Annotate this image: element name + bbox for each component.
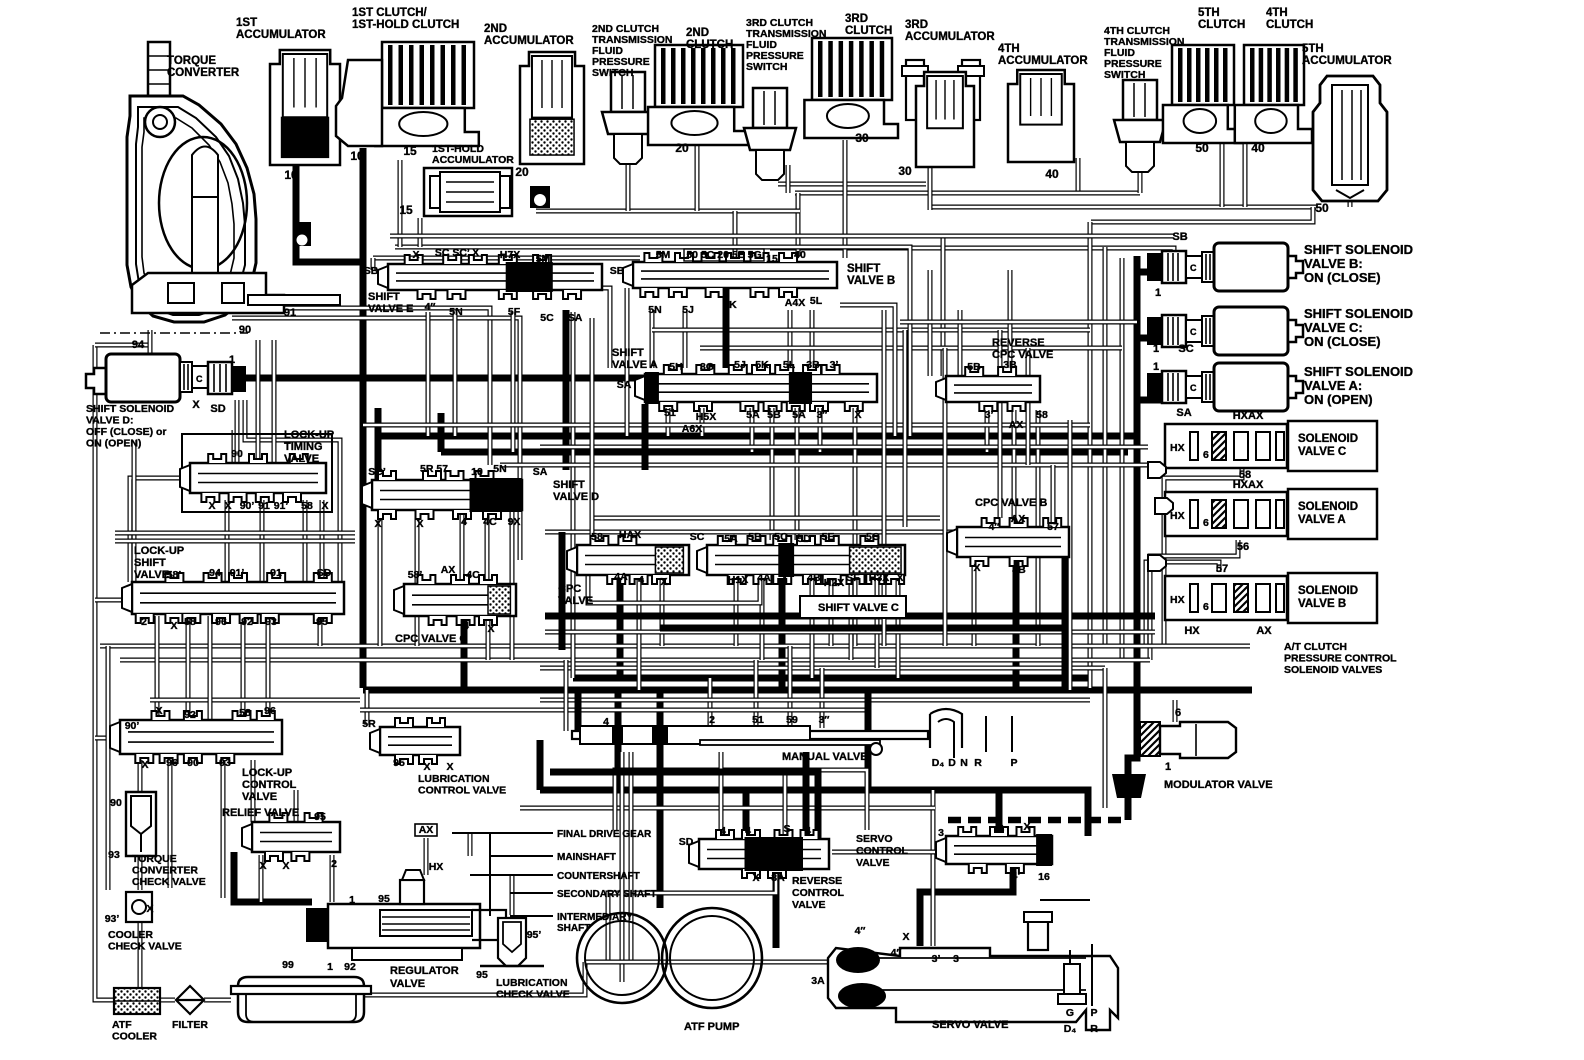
wire cpcC-X xyxy=(486,620,491,660)
wire bus y646 xyxy=(100,644,1250,649)
svg-text:SC: SC xyxy=(1178,343,1193,355)
wire 4th clutch 40 xyxy=(1243,135,1248,207)
port box svb xyxy=(684,249,764,261)
wire cpcB-X xyxy=(972,560,977,646)
svg-text:50: 50 xyxy=(1195,141,1209,155)
accumulator 1st xyxy=(270,50,340,165)
wire thick bus B xyxy=(363,687,1252,694)
label svd ports xyxy=(368,463,547,530)
wire shiftE top feed xyxy=(373,256,640,261)
label port 20a xyxy=(515,165,529,179)
svg-text:4: 4 xyxy=(463,620,469,632)
svg-text:4: 4 xyxy=(805,825,811,837)
wire 2nd shiftB drop xyxy=(733,211,738,258)
wire ltv-2 xyxy=(260,500,265,582)
wire bus y808 xyxy=(520,806,935,811)
strainer xyxy=(231,977,371,1022)
wire bus y447 xyxy=(540,445,1148,450)
wire bus y236 xyxy=(390,234,1174,239)
svg-text:P: P xyxy=(1090,1007,1097,1019)
label 93 xyxy=(108,849,120,861)
wire vert 1010 xyxy=(1008,270,1013,368)
wire right riser 1090 xyxy=(1088,222,1093,688)
svg-text:1: 1 xyxy=(349,894,355,906)
svg-text:5N: 5N xyxy=(648,304,661,316)
label svc ports xyxy=(690,531,904,589)
svg-text:92: 92 xyxy=(241,616,253,628)
wire mv-51 xyxy=(754,660,759,728)
svg-text:MODULATOR VALVE: MODULATOR VALVE xyxy=(1164,779,1273,791)
label reg ports xyxy=(327,893,390,973)
label ssd ports xyxy=(132,307,296,415)
svg-text:C: C xyxy=(1190,327,1197,337)
svg-text:4: 4 xyxy=(998,823,1004,835)
label port 30a xyxy=(855,131,869,145)
solenoid valve B xyxy=(1165,576,1287,620)
wire 1st-accumulator feed 10 xyxy=(296,160,366,262)
svg-text:2: 2 xyxy=(331,858,337,870)
svg-text:6: 6 xyxy=(1203,449,1209,461)
wire rcpc-58 xyxy=(1036,410,1041,646)
svg-text:4A: 4A xyxy=(757,572,771,584)
clutch 4th xyxy=(1235,45,1312,143)
svg-text:A6X: A6X xyxy=(682,423,702,435)
wire 40 port feed xyxy=(796,193,801,256)
wire lcv-93 xyxy=(221,760,226,898)
wire cpcB drop 4B xyxy=(1013,560,1020,690)
lubrication check valve xyxy=(480,918,544,966)
svg-text:X: X xyxy=(752,872,759,884)
label mod ports xyxy=(1165,707,1181,773)
svg-text:90: 90 xyxy=(110,797,122,809)
svg-text:X: X xyxy=(192,399,200,411)
svg-text:50 5C 20 5E 5G: 50 5C 20 5E 5G xyxy=(686,249,761,261)
svg-text:H3X: H3X xyxy=(869,572,889,584)
wire 3rd clutch 30 drop xyxy=(843,140,848,258)
svg-text:H5X: H5X xyxy=(696,411,716,423)
wire bus y632 xyxy=(545,630,1155,635)
label rcv ports xyxy=(679,823,811,884)
wire solenoid SB stub xyxy=(1137,269,1162,276)
check ball 2nd xyxy=(530,186,550,208)
svg-text:R: R xyxy=(1090,1023,1098,1035)
svg-text:59: 59 xyxy=(786,714,798,726)
lock-up timing valve xyxy=(180,454,326,502)
svg-text:93’: 93’ xyxy=(105,913,120,925)
wire reverse control feed xyxy=(743,790,750,840)
label lub95 xyxy=(476,929,541,981)
svg-text:SC SC’ X: SC SC’ X xyxy=(435,247,479,259)
svg-text:3A: 3A xyxy=(771,872,785,884)
svg-text:X: X xyxy=(170,620,177,632)
wire svC-H1X xyxy=(734,575,739,646)
svg-text:57: 57 xyxy=(1047,521,1059,533)
wire thick bus lower riser xyxy=(438,413,445,452)
cooler check valve xyxy=(126,892,152,922)
svg-text:5A: 5A xyxy=(724,533,738,545)
svg-text:1: 1 xyxy=(1165,761,1171,773)
wire lcv drop2 xyxy=(251,760,256,822)
wire relief-X1 xyxy=(259,855,264,902)
svg-text:CPC VALVE C: CPC VALVE C xyxy=(395,633,467,645)
wire solenoid SC stub xyxy=(1137,335,1162,342)
wire solenoid D output SD xyxy=(232,375,644,382)
wire left border xyxy=(95,345,114,1000)
svg-text:3’: 3’ xyxy=(985,409,994,421)
wire thick bus A xyxy=(573,675,1090,682)
wire 5th accumulator 50 xyxy=(1348,198,1353,207)
label 93p X xyxy=(105,903,154,925)
wire 5E-4 xyxy=(426,312,431,436)
svg-text:91: 91 xyxy=(258,500,270,512)
svg-text:SB: SB xyxy=(1172,231,1187,243)
shift valve A xyxy=(635,365,877,411)
wire vert 556 xyxy=(564,660,569,731)
svg-text:58: 58 xyxy=(591,531,603,543)
wire 5E-5F xyxy=(511,312,516,452)
wire bus y532 xyxy=(545,532,1065,545)
svg-text:50: 50 xyxy=(1315,201,1329,215)
lock-up control valve xyxy=(110,711,282,763)
svg-text:3″: 3″ xyxy=(819,714,830,726)
wire bus y184 xyxy=(778,182,926,187)
modulator check ball xyxy=(1112,774,1146,798)
wire svD-4C xyxy=(485,512,490,584)
wire cpcC drop xyxy=(461,620,468,690)
wire lsv-95 xyxy=(318,616,323,646)
label HXAX A xyxy=(1233,479,1264,553)
svg-text:3A: 3A xyxy=(811,975,825,987)
wire 5B-5J xyxy=(683,310,688,368)
wire ltv feed c xyxy=(272,340,277,463)
svg-text:58: 58 xyxy=(184,616,196,628)
svg-text:1: 1 xyxy=(1153,343,1159,355)
wire loop rcv top xyxy=(615,770,867,830)
svg-text:94: 94 xyxy=(209,567,221,579)
wire rcv port 4c xyxy=(803,752,810,839)
svg-text:58: 58 xyxy=(1036,409,1048,421)
wire svB right elbow1 xyxy=(843,247,910,436)
clutch 2nd xyxy=(648,45,748,145)
shift valve E xyxy=(378,255,602,299)
svg-text:RELIEF VALVE: RELIEF VALVE xyxy=(222,807,299,819)
wire svC drop 4 xyxy=(779,575,786,690)
svg-text:4: 4 xyxy=(461,516,467,528)
connector plug 56 xyxy=(1155,498,1173,514)
wire 5B-5L xyxy=(810,310,815,368)
wire tc out 91 xyxy=(232,308,490,465)
wire vert 960 xyxy=(958,310,963,376)
servo control valve xyxy=(936,827,1052,873)
wire thick U1 xyxy=(545,613,1155,620)
wire lsv-96 xyxy=(186,616,191,718)
label AX HX reg xyxy=(419,824,444,873)
wire svC-H2X xyxy=(829,575,834,646)
wire lcv-90 left xyxy=(95,736,118,741)
svg-text:90: 90 xyxy=(239,324,251,336)
svg-text:58’: 58’ xyxy=(408,569,423,581)
svg-text:5K: 5K xyxy=(723,299,737,311)
pressure switch 4th clutch xyxy=(1114,80,1166,172)
svg-text:95: 95 xyxy=(378,893,390,905)
wire cpcA-X xyxy=(660,575,665,646)
wire 1st-hold acc drop xyxy=(418,218,423,247)
wire mv-3pp xyxy=(820,668,825,728)
wire ltv-4 xyxy=(320,500,325,582)
wire vert 1000 xyxy=(998,330,1003,518)
label HXAX C xyxy=(1233,410,1264,481)
regulator valve xyxy=(306,870,506,960)
wire bus y207 xyxy=(930,205,1316,210)
wire 5B-5N xyxy=(650,310,655,368)
wire lsv frame left xyxy=(132,440,137,582)
svg-text:SA: SA xyxy=(1176,407,1191,419)
wire modulator 6 xyxy=(1173,700,1178,722)
svg-text:5E: 5E xyxy=(822,531,835,543)
label cpca ports xyxy=(591,529,667,588)
wire lub check up xyxy=(510,875,515,915)
svg-text:SECONDARY SHAFT: SECONDARY SHAFT xyxy=(557,889,656,900)
svg-text:3″: 3″ xyxy=(817,409,828,421)
label 99 xyxy=(282,959,294,971)
clutch 3rd xyxy=(804,38,898,138)
svg-text:5B: 5B xyxy=(967,361,981,373)
ax box xyxy=(415,824,437,836)
svg-text:AX: AX xyxy=(419,824,434,836)
label HX AX B xyxy=(1184,563,1272,637)
svg-text:A4X: A4X xyxy=(785,297,805,309)
svg-text:ATF PUMP: ATF PUMP xyxy=(684,1021,739,1033)
wire strainer-pump xyxy=(365,962,585,995)
wire vert 600 xyxy=(620,752,625,982)
svg-text:5B: 5B xyxy=(748,531,762,543)
svg-text:92: 92 xyxy=(184,709,196,721)
svg-text:57: 57 xyxy=(1216,563,1228,575)
svg-text:SERVO VALVE: SERVO VALVE xyxy=(932,1019,1008,1031)
svg-text:COUNTERSHAFT: COUNTERSHAFT xyxy=(557,871,640,882)
wire vert 930b xyxy=(928,270,933,376)
svg-text:5N: 5N xyxy=(449,306,462,318)
label lsv ports xyxy=(141,567,332,632)
wire link y322 xyxy=(900,320,1137,325)
wire bus y518 xyxy=(590,516,940,521)
torque converter check valve xyxy=(126,792,156,856)
svg-text:3’: 3’ xyxy=(932,953,941,965)
svg-text:4C: 4C xyxy=(483,516,497,528)
label relief ports xyxy=(259,811,337,872)
svg-text:15: 15 xyxy=(399,203,413,217)
svg-text:1: 1 xyxy=(229,354,235,366)
wire ltv feed a xyxy=(235,400,240,463)
wire line4 to servo control xyxy=(540,790,1088,836)
wire modulator dashed line xyxy=(948,817,1128,824)
CPC valve B xyxy=(947,518,1069,566)
svg-text:MANUAL VALVE: MANUAL VALVE xyxy=(782,751,868,763)
accumulator 2nd xyxy=(520,52,584,164)
wire ltv-1 xyxy=(225,500,230,582)
clutch 1st/1st-hold xyxy=(375,42,478,146)
svg-text:5L: 5L xyxy=(810,295,823,307)
svg-text:99: 99 xyxy=(282,959,294,971)
svg-text:10: 10 xyxy=(471,466,483,478)
wire svD-4 xyxy=(460,512,465,584)
wire atfcooler-filter xyxy=(160,998,175,1003)
svg-text:5B: 5B xyxy=(767,409,781,421)
svg-text:4: 4 xyxy=(745,825,751,837)
wire mv-59 xyxy=(788,646,793,728)
manual valve xyxy=(572,709,1012,758)
svg-text:X: X xyxy=(146,903,153,915)
accumulator 5th xyxy=(1313,76,1387,201)
wire ltv-90 xyxy=(232,430,237,463)
svg-text:C: C xyxy=(1190,263,1197,273)
wire left border top xyxy=(95,343,150,348)
filter xyxy=(176,986,204,1014)
wire 5th clutch 50 xyxy=(1220,135,1225,207)
svg-text:SA: SA xyxy=(568,312,583,324)
svg-text:4″: 4″ xyxy=(425,301,436,313)
svg-text:SHIFT VALVE C: SHIFT VALVE C xyxy=(818,602,899,614)
svg-text:5F: 5F xyxy=(508,306,521,318)
svg-text:96: 96 xyxy=(264,705,276,717)
svg-text:9X: 9X xyxy=(508,516,521,528)
svg-text:G: G xyxy=(1066,1007,1074,1019)
wire svC-SF xyxy=(849,575,854,660)
svg-text:95: 95 xyxy=(393,757,405,769)
svg-text:4B: 4B xyxy=(807,572,821,584)
wire svD-X1 xyxy=(378,512,383,646)
svg-text:4: 4 xyxy=(638,574,644,586)
svg-text:3B: 3B xyxy=(806,359,820,371)
accumulator 1st-hold xyxy=(424,168,512,216)
svg-text:AX: AX xyxy=(1011,513,1026,525)
wire lsv top rail2 xyxy=(115,539,355,544)
wire 4th accumulator 40 xyxy=(1076,158,1081,193)
svg-text:S: S xyxy=(783,823,790,835)
svg-text:SF: SF xyxy=(846,572,860,584)
wire 3rd accumulator drop xyxy=(928,155,933,210)
wire right riser 1122 xyxy=(1120,258,1125,660)
shift valve D xyxy=(362,471,522,519)
svg-text:FILTER: FILTER xyxy=(172,1019,208,1031)
svg-text:10: 10 xyxy=(284,168,298,182)
svg-text:1: 1 xyxy=(1155,287,1161,299)
wire rcpc-3p xyxy=(985,410,990,452)
wire ccv-atf xyxy=(138,922,143,988)
servo valve xyxy=(828,900,1118,1030)
solenoid valve B label box xyxy=(1288,573,1377,623)
label port 40b xyxy=(1251,141,1265,155)
svg-text:HX: HX xyxy=(1170,594,1185,606)
svg-text:3G: 3G xyxy=(700,361,714,373)
wire lsv-58 xyxy=(241,616,246,716)
label rcpc ports xyxy=(967,359,1048,431)
lock-up shift valve xyxy=(122,573,344,623)
svg-text:H2X: H2X xyxy=(824,577,844,589)
wire 2nd bus y211 xyxy=(536,209,800,214)
wire rcpc-AX xyxy=(1012,410,1017,527)
svg-text:AX: AX xyxy=(441,564,456,576)
wire 5E-SA xyxy=(571,312,576,678)
wire bus y222 xyxy=(1091,207,1313,222)
svg-text:X: X xyxy=(660,576,667,588)
svg-text:3: 3 xyxy=(938,827,944,839)
wire 2nd clutch drop xyxy=(695,140,700,211)
label ltv ports xyxy=(208,448,328,512)
svg-text:4: 4 xyxy=(781,574,787,586)
ATF pump xyxy=(577,908,762,1008)
svg-text:10: 10 xyxy=(350,149,364,163)
svg-text:90’: 90’ xyxy=(240,500,255,512)
wire suction join xyxy=(585,960,640,965)
svg-text:LUBRICATIONCHECK VALVE: LUBRICATIONCHECK VALVE xyxy=(496,977,570,1001)
svg-text:5K: 5K xyxy=(755,359,769,371)
svg-text:95: 95 xyxy=(476,969,488,981)
wire svD 9X thick xyxy=(559,532,566,650)
pressure switch 3rd clutch xyxy=(744,88,796,180)
label cpcb ports xyxy=(973,513,1059,576)
svg-text:5R 57: 5R 57 xyxy=(420,463,448,475)
svg-text:40: 40 xyxy=(1045,167,1059,181)
svg-text:5C: 5C xyxy=(540,312,554,324)
wire rcv port S xyxy=(783,770,788,839)
svg-text:X: X xyxy=(321,500,328,512)
wire reverse ctl to servo valve xyxy=(773,870,780,948)
clutch 5th xyxy=(1163,45,1242,143)
label sve ports xyxy=(364,247,583,324)
svg-text:C: C xyxy=(196,374,203,384)
solenoid valve C label box xyxy=(1288,421,1377,471)
wire right thick riser xyxy=(1128,256,1137,774)
wire relief up xyxy=(294,790,299,822)
svg-text:SB: SB xyxy=(610,265,625,277)
svg-text:15: 15 xyxy=(403,144,417,158)
svg-text:AX: AX xyxy=(1009,419,1024,431)
wire left y700 ext xyxy=(150,698,360,703)
wire 5A-51 xyxy=(666,408,671,436)
wire stair y330 xyxy=(652,328,1090,333)
svg-text:5R: 5R xyxy=(362,718,376,730)
svg-text:96: 96 xyxy=(215,616,227,628)
ATF cooler xyxy=(114,988,160,1014)
svg-text:94: 94 xyxy=(132,339,145,351)
wire solC 58 line xyxy=(1164,466,1242,646)
svg-text:SA: SA xyxy=(533,466,548,478)
svg-text:D₄: D₄ xyxy=(932,757,945,769)
wire 5A-X xyxy=(853,408,858,646)
svg-text:X: X xyxy=(973,562,980,574)
svg-text:6: 6 xyxy=(1203,517,1209,529)
svg-text:91’: 91’ xyxy=(274,500,289,512)
svg-text:H7X: H7X xyxy=(500,249,520,261)
wire ltv feed b xyxy=(256,340,261,463)
wire bus y668 xyxy=(540,666,1105,671)
wire 20 thick drop xyxy=(723,288,730,368)
svg-text:HXAX: HXAX xyxy=(1233,479,1264,491)
wire thick U2 drop xyxy=(1062,545,1069,690)
svg-text:91: 91 xyxy=(270,567,282,579)
wire vert 905 xyxy=(903,330,908,527)
label sva ports xyxy=(617,359,862,435)
wire left inner vertical xyxy=(106,646,111,890)
label SC port xyxy=(1153,343,1194,355)
wire rcv port 4a xyxy=(719,752,724,839)
svg-text:SD: SD xyxy=(317,567,332,579)
svg-text:5M: 5M xyxy=(536,253,551,265)
svg-text:96: 96 xyxy=(166,757,178,769)
wire vert 1105b xyxy=(1103,668,1108,808)
wire vert 943 xyxy=(941,236,946,376)
